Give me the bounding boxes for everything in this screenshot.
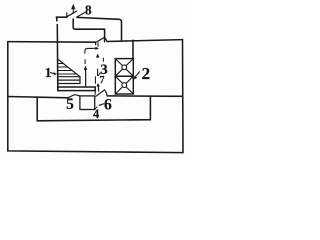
svg-text:2: 2 [142, 64, 151, 83]
svg-text:1: 1 [45, 65, 52, 80]
svg-text:8: 8 [85, 2, 92, 17]
svg-text:4: 4 [93, 107, 100, 121]
svg-text:6: 6 [104, 97, 112, 114]
svg-text:7: 7 [100, 75, 105, 86]
svg-text:5: 5 [66, 96, 74, 113]
